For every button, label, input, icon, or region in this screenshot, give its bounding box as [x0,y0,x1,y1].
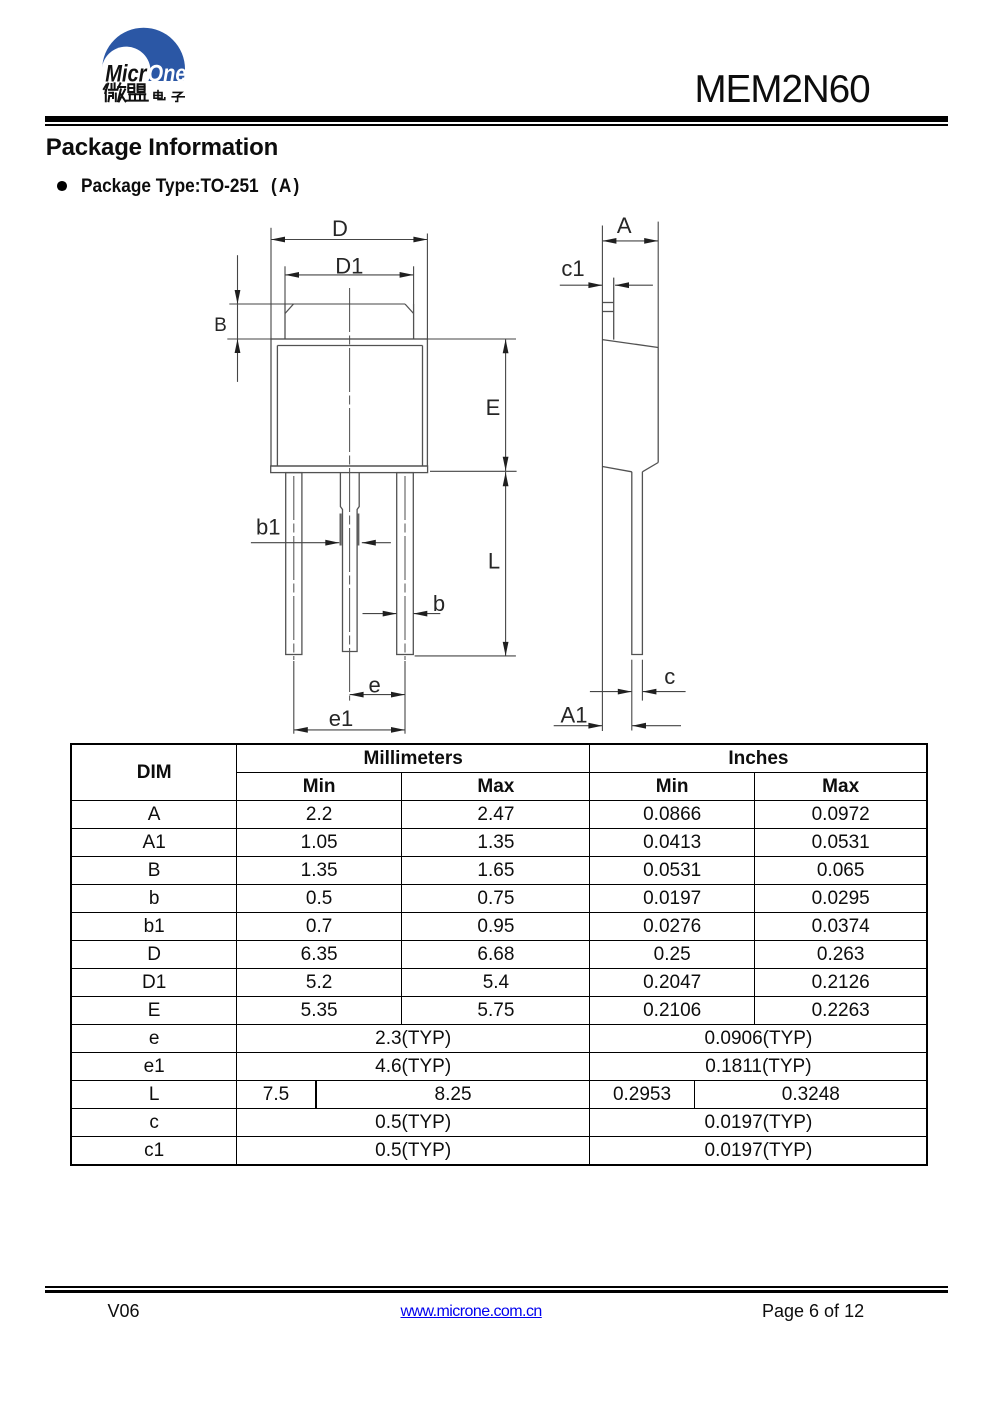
centerline body/lead2 [349,288,351,701]
svg-text:E: E [486,395,501,420]
front view lead 2 [340,473,359,652]
A1 arrows [588,723,602,729]
c arrows [618,689,632,695]
svg-text:e: e [368,673,380,698]
hanzi dian [154,91,165,100]
side view tab notch line 1 [602,302,613,304]
dim b line right [413,613,440,615]
E arrows [503,339,509,353]
dim c1 line left [560,284,603,286]
dim A1 line right [632,725,681,727]
svg-text:c: c [664,664,675,689]
e arrows [350,692,364,698]
B arrows [235,290,241,304]
dim A1 line left [554,725,603,727]
b1 gauge bars [341,514,359,546]
c1 arrows [588,282,602,288]
svg-text:B: B [214,315,227,336]
front view bottom flange [271,466,428,473]
dim c1 line right [615,284,653,286]
dim e line [350,694,405,696]
svg-text:c1: c1 [561,256,584,281]
center lines [294,288,405,701]
body top line / B E extension [227,338,516,340]
D1 arrows [285,272,299,278]
hanzi wei [104,83,126,101]
part number [695,68,870,112]
svg-text:A1: A1 [561,703,588,728]
e1 arrows [294,727,308,733]
side view tab notch line 2 [602,311,613,313]
side view tab right line [613,278,615,340]
svg-text:e1: e1 [329,706,353,731]
tab top line / B extension [229,303,405,305]
svg-text:D: D [332,216,348,241]
dim A extension right [657,222,659,348]
side view body right edge [657,348,659,463]
D arrows [271,237,285,243]
dim c line left [590,691,632,693]
e extension lead3 [404,661,406,734]
side view lead [632,472,643,655]
hanzi zi [172,92,184,101]
dim L line [505,472,507,656]
dim D1 line [285,274,414,276]
c extension right [641,660,643,701]
dim b1 line left [251,542,339,544]
arrowheads [235,237,659,733]
dim D1 extension left [284,266,286,304]
dim D extension right [426,234,428,340]
front view tab left edge [284,304,286,339]
front view body outline [271,339,427,466]
c extension left / A1 extension [631,660,633,731]
side view body top slant [602,340,658,348]
lead bottom extension [415,655,516,657]
b arrows [383,611,397,617]
dim A line [602,240,658,242]
svg-text:b1: b1 [256,514,280,539]
section heading [46,134,278,162]
L arrows [503,472,509,486]
front view tab right edge [413,304,415,339]
front view body inner top line [277,345,422,347]
dimension labels [214,213,675,731]
side long extension line [601,226,603,732]
svg-text:A: A [617,213,632,238]
front view lead 1 [286,473,302,655]
logo MicrOne [100,26,192,112]
footer double rule [45,1286,948,1288]
header double rule [45,116,948,122]
footer [108,1301,140,1322]
hanzi meng [127,84,148,100]
front view lead 3 [397,473,414,655]
front view body inner left line [276,346,278,467]
dim B line [237,255,239,382]
dim b line left [363,613,397,615]
side view body bottom right slant [642,463,658,472]
svg-text:L: L [488,549,500,574]
svg-text:D1: D1 [335,254,363,279]
svg-text:b: b [433,591,445,616]
seating plane extension [430,470,517,472]
front view body inner right line [422,346,424,467]
dimension table [70,743,928,1166]
dim b1 line right [362,542,391,544]
dim D line [271,239,427,241]
dim e1 line [294,729,405,731]
front view tab left bevel [285,304,294,314]
front view tab right bevel [405,304,414,314]
b1 arrows [325,540,339,546]
dim E line [505,339,507,471]
bullet [57,181,67,191]
A arrows [602,238,616,244]
centerline lead3 [404,476,406,660]
dim c line right [642,691,685,693]
e extension lead1 [293,661,295,734]
centerline lead1 [293,476,295,660]
dim D extension left [270,228,272,339]
dim D1 extension right [413,266,415,304]
side view body bottom left slant [602,467,631,472]
